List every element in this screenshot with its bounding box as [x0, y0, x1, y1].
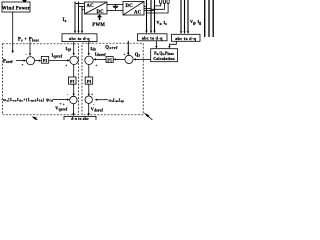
svg-text:DC: DC: [126, 4, 134, 9]
svg-text:DC: DC: [97, 10, 105, 15]
svg-text:abc to d-q: abc to d-q: [142, 35, 163, 40]
block PI2: [106, 57, 113, 63]
summer S1: [26, 57, 34, 65]
svg-text:+: +: [63, 103, 65, 107]
wire grid bus a: [180, 0, 182, 32]
PWM arrow into AC/DC: [97, 14, 102, 20]
wire PI4 to summer S6: [88, 84, 90, 94]
wire inverter out a: [144, 5, 147, 7]
svg-text:Idsref: Idsref: [95, 51, 106, 57]
summer S2: [70, 56, 78, 64]
callout arrow left: [34, 118, 38, 120]
svg-text:+: +: [91, 92, 93, 96]
wire wLI to summer S6: [97, 99, 108, 101]
wire stator phase a: [74, 2, 76, 32]
block Ps Qs Ploss calculation: [151, 49, 178, 62]
wire PI3 to summer S5: [73, 84, 75, 94]
svg-text:-: -: [67, 92, 69, 96]
svg-text:+: +: [65, 64, 67, 68]
dashed controller box (grid side): [82, 43, 143, 115]
svg-text:abc to d-q: abc to d-q: [69, 36, 90, 41]
wire S6 to dq-abc: [88, 103, 90, 113]
block abc to d-q (stator): [62, 34, 97, 42]
block PI3: [69, 77, 77, 84]
wire stator phase c: [81, 6, 83, 31]
wire stub b to AC/DC: [79, 6, 85, 8]
wind power input arrow: [22, 0, 27, 3]
svg-text:Qsref: Qsref: [105, 45, 118, 50]
wire converter bus a: [146, 0, 148, 31]
wire DC link top: [107, 4, 123, 6]
wire PI2 to summer S3: [96, 58, 106, 60]
summer S3: [85, 56, 93, 64]
block d-q to abc: [64, 116, 96, 124]
converter U2 DC/AC: [123, 2, 144, 16]
block Wind Power: [2, 2, 30, 12]
svg-text:Vqsref: Vqsref: [55, 105, 68, 111]
wire wind power to P_sref: [12, 12, 14, 51]
wire stub a to AC/DC: [75, 3, 85, 5]
svg-text:Iqs: Iqs: [66, 46, 72, 52]
svg-text:Iqsref: Iqsref: [52, 53, 63, 59]
wire converter bus c: [154, 0, 156, 31]
svg-text:abc to d-q: abc to d-q: [175, 36, 196, 41]
svg-text:-: -: [26, 53, 28, 57]
wire Psref to summer S1: [16, 60, 24, 62]
wire inverter out b: [144, 8, 151, 10]
svg-text:Calculation: Calculation: [153, 56, 175, 61]
svg-text:+: +: [96, 64, 98, 68]
grid line 3: [212, 0, 214, 37]
grid line 1: [204, 0, 206, 37]
wire S1 to PI1: [35, 60, 39, 62]
svg-text:AC: AC: [87, 4, 95, 9]
inductor L phase b: [163, 0, 165, 4]
wire Ps+Ploss down: [29, 41, 31, 53]
svg-text:Wind Power: Wind Power: [2, 6, 31, 11]
capacitor DC link: [115, 5, 117, 7]
svg-text:Psref: Psref: [3, 59, 13, 64]
svg-text:-ωs[LssIds+(LmdIfd) ψfd: -ωs[LssIds+(LmdIfd) ψfd: [1, 97, 53, 103]
wire S3 to PI4: [88, 65, 90, 78]
svg-text:PI: PI: [87, 79, 92, 84]
svg-text:PWM: PWM: [92, 23, 105, 28]
summer S4: [125, 55, 133, 63]
wire S2 to PI3: [73, 65, 75, 78]
svg-text:Is: Is: [63, 17, 67, 23]
summer S5: [70, 96, 77, 103]
wire Iqs down: [73, 42, 75, 54]
summer S6: [85, 96, 92, 103]
wire feedforward to summer S5: [53, 99, 67, 101]
wire mid abc to calculation: [155, 41, 157, 47]
svg-text:+: +: [22, 63, 24, 67]
svg-text:Vs, Is: Vs, Is: [157, 20, 168, 26]
block PI4: [85, 77, 93, 84]
wire grid bus c: [187, 0, 189, 32]
wire stator phase b: [78, 2, 80, 32]
wire stub c to AC/DC: [82, 9, 85, 11]
svg-text:Qs: Qs: [135, 53, 141, 58]
wire PI1 to summer S2: [49, 59, 67, 61]
svg-text:AC: AC: [134, 11, 142, 16]
wire grid abc to calculation: [169, 41, 176, 46]
converter U1 AC/DC: [85, 2, 108, 14]
wire converter bus b: [150, 0, 152, 31]
wire DC link bottom: [107, 10, 123, 12]
block abc to d-q (converter side): [138, 34, 168, 41]
block PI1: [41, 57, 48, 64]
inductor L phase a: [160, 0, 162, 4]
wire Qs to summer S4: [136, 58, 151, 60]
wire inverter out c: [144, 10, 155, 12]
svg-text:+: +: [60, 102, 62, 106]
wire Ids down: [88, 42, 90, 54]
dashed controller box (machine side): [3, 44, 79, 115]
wire S5 to dq-abc: [72, 104, 74, 114]
block abc to d-q (grid side): [172, 34, 201, 41]
grid line 2: [208, 0, 210, 37]
svg-text:Vg, Ig: Vg, Ig: [190, 19, 201, 25]
wire summer S4 to PI2: [116, 58, 125, 60]
svg-text:Ps + Ploss: Ps + Ploss: [18, 38, 39, 43]
svg-text:d-q to abc: d-q to abc: [71, 117, 89, 120]
svg-text:ωsLssIqs: ωsLssIqs: [109, 97, 125, 103]
callout arrow right: [146, 115, 152, 120]
svg-text:PI: PI: [107, 58, 112, 63]
wire Qsref down to summer S4: [127, 41, 129, 53]
wire grid bus b: [184, 0, 186, 32]
svg-text:+: +: [123, 52, 125, 56]
svg-text:Vdsref: Vdsref: [91, 106, 104, 112]
inductor L phase c: [167, 0, 169, 4]
svg-text:PI: PI: [43, 58, 48, 63]
svg-text:PI: PI: [70, 79, 75, 84]
